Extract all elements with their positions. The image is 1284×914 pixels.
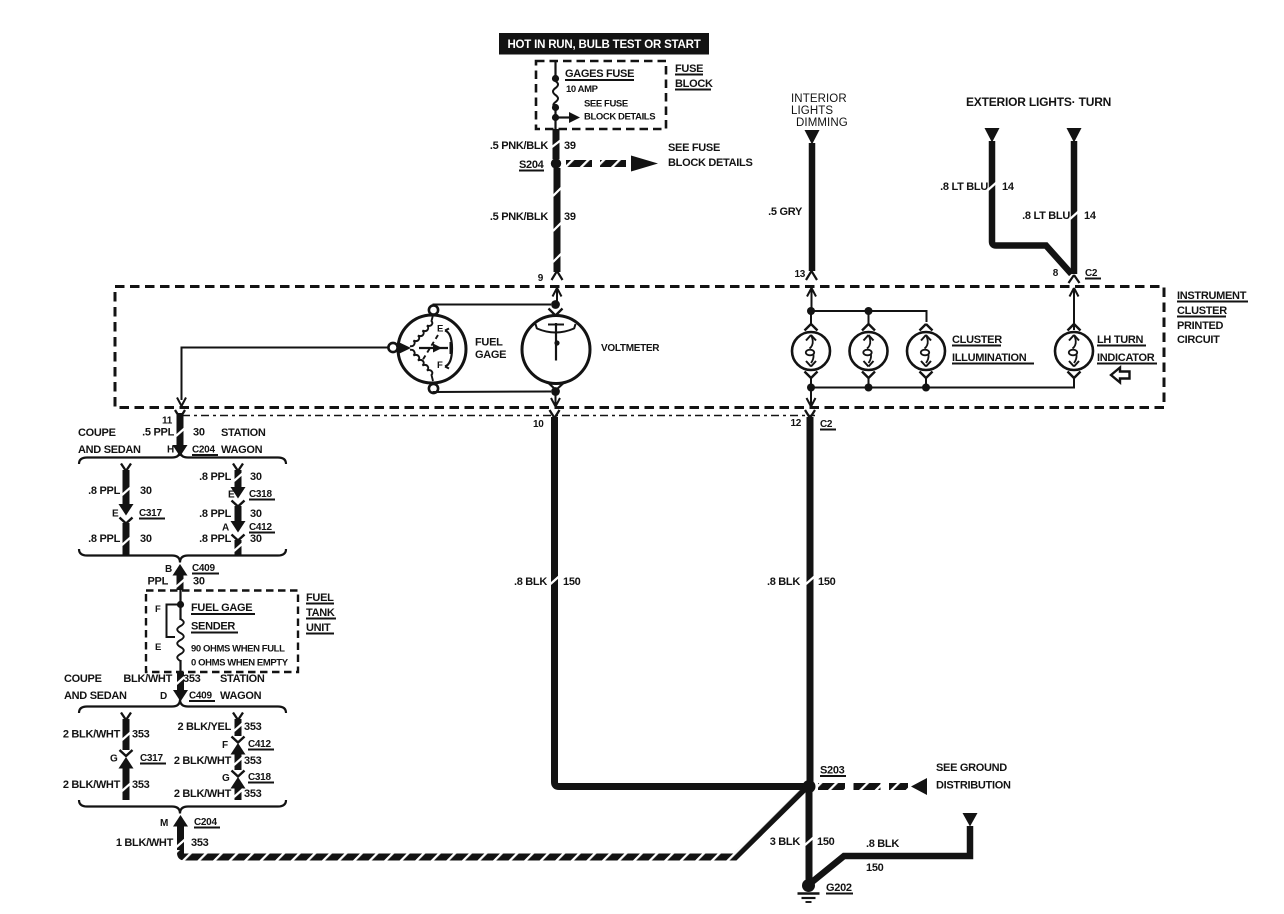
svg-text:12: 12 (790, 418, 801, 429)
wire fuel gage left to pin 11 (182, 348, 389, 401)
connector C204/C2 dash-dot line (182, 415, 815, 417)
long ground wire to S203 (181, 787, 807, 857)
connector C409 pin B (165, 563, 219, 576)
wagon branch wire 2 BLK/WHT 353 middle (174, 754, 262, 770)
splice S203 (803, 765, 847, 794)
svg-text:353: 353 (132, 729, 150, 741)
svg-text:FUEL: FUEL (475, 337, 503, 349)
exterior feed triangle left (985, 128, 1000, 143)
svg-text:39: 39 (564, 211, 576, 223)
svg-text:353: 353 (244, 721, 262, 733)
svg-text:E: E (155, 642, 161, 653)
svg-text:D: D (160, 691, 167, 702)
station wagon label (mid) (220, 673, 265, 702)
svg-text:DISTRIBUTION: DISTRIBUTION (936, 780, 1011, 792)
wire A voltmeter .8 BLK 150 (514, 417, 804, 787)
svg-text:.5 PNK/BLK: .5 PNK/BLK (490, 140, 548, 152)
see fuse block details tap arrow (558, 99, 655, 124)
pin 9 entry (538, 271, 563, 304)
gages fuse F1 (552, 61, 634, 129)
svg-text:G202: G202 (826, 882, 852, 894)
svg-text:SEE FUSE: SEE FUSE (584, 99, 628, 110)
svg-text:30: 30 (193, 427, 205, 439)
coupe branch wire .8 PPL 30 upper (88, 464, 152, 505)
splice S204 (519, 158, 561, 171)
svg-text:150: 150 (818, 576, 836, 588)
svg-text:WAGON: WAGON (220, 690, 262, 702)
svg-text:.8 LT BLU: .8 LT BLU (940, 181, 988, 193)
svg-text:HOT IN RUN, BULB TEST OR START: HOT IN RUN, BULB TEST OR START (507, 39, 700, 51)
dashed arrow see fuse block details (566, 142, 753, 172)
wagon branch wire 2 BLK/WHT 353 bottom (174, 788, 262, 800)
svg-text:.8 PPL: .8 PPL (199, 471, 231, 483)
svg-text:ILLUMINATION: ILLUMINATION (952, 352, 1027, 364)
coupe branch wire 2 BLK/WHT 353 upper (63, 713, 150, 751)
svg-text:PPL: PPL (148, 576, 169, 588)
voltmeter U2 (522, 300, 590, 396)
wire B cluster .8 BLK 150 (767, 417, 836, 782)
svg-text:COUPE: COUPE (78, 427, 116, 439)
fuel gage sender R1 (155, 590, 184, 672)
cluster illumination lamp 2 (850, 324, 888, 378)
svg-text:GAGE: GAGE (475, 349, 506, 361)
connector C318 pin G (lower) (222, 771, 274, 789)
svg-text:F: F (222, 740, 228, 751)
interior lights dimming label (791, 93, 848, 129)
svg-text:C317: C317 (140, 753, 163, 764)
svg-text:0 OHMS WHEN EMPTY: 0 OHMS WHEN EMPTY (191, 658, 289, 669)
wire 3 BLK 150 S203 to G202 (770, 792, 835, 881)
svg-text:.5 PNK/BLK: .5 PNK/BLK (490, 211, 548, 223)
svg-text:353: 353 (132, 779, 150, 791)
svg-text:COUPE: COUPE (64, 673, 102, 685)
svg-text:INSTRUMENT: INSTRUMENT (1177, 290, 1247, 302)
brace bottom of upper group (79, 549, 286, 563)
fuel tank unit label (306, 592, 336, 634)
svg-text:BLOCK: BLOCK (675, 78, 713, 90)
cluster illumination lamp 1 (792, 324, 830, 378)
wire .8 BLK 150 G202 to body (812, 826, 970, 882)
wire fuse to S204 .5 PNK/BLK 39 (490, 129, 576, 159)
svg-text:.5 PPL: .5 PPL (142, 427, 174, 439)
wire .8 LT BLU 14 left (940, 141, 1071, 274)
connector C317 pin G (lower) (110, 750, 166, 769)
svg-text:353: 353 (191, 837, 209, 849)
svg-text:C318: C318 (248, 772, 271, 783)
cluster illumination lamp 3 (907, 324, 945, 378)
wire BLK/WHT 353 below tank (123, 672, 200, 690)
svg-text:SENDER: SENDER (191, 621, 235, 633)
cluster lamp top bus (807, 307, 927, 324)
svg-text:WAGON: WAGON (221, 444, 263, 456)
wagon branch wire .8 PPL 30 top (199, 464, 262, 488)
cluster lamp bottom bus (807, 378, 1074, 392)
ground G202 (798, 879, 854, 902)
svg-text:UNIT: UNIT (306, 622, 331, 634)
svg-text:150: 150 (866, 862, 884, 874)
svg-text:2 BLK/WHT: 2 BLK/WHT (63, 729, 121, 741)
svg-text:C317: C317 (139, 508, 162, 519)
dashed arrow see ground distribution (818, 762, 1011, 795)
svg-text:BLOCK DETAILS: BLOCK DETAILS (668, 157, 753, 169)
svg-text:90 OHMS WHEN FULL: 90 OHMS WHEN FULL (191, 644, 285, 655)
pin 10 exit (533, 395, 560, 430)
coupe branch wire .8 PPL 30 lower (88, 523, 152, 556)
svg-text:2 BLK/WHT: 2 BLK/WHT (174, 755, 232, 767)
svg-text:10 AMP: 10 AMP (566, 84, 599, 95)
svg-text:INDICATOR: INDICATOR (1097, 352, 1155, 364)
svg-text:30: 30 (250, 533, 262, 545)
svg-text:FUEL: FUEL (306, 592, 334, 604)
svg-text:.8 LT BLU: .8 LT BLU (1022, 210, 1070, 222)
wire .8 LT BLU 14 right (1022, 141, 1097, 274)
wire fuel gage top to voltmeter junction (434, 305, 552, 306)
svg-text:11: 11 (162, 416, 173, 427)
svg-text:.8 PPL: .8 PPL (199, 508, 231, 520)
connector C318 pin E (228, 487, 275, 507)
svg-text:M: M (160, 818, 168, 829)
svg-text:1 BLK/WHT: 1 BLK/WHT (116, 837, 174, 849)
svg-text:GAGES FUSE: GAGES FUSE (565, 68, 634, 80)
instrument cluster printed circuit label (1177, 290, 1248, 346)
svg-text:C2: C2 (820, 419, 833, 430)
fuel gage sender label (191, 602, 289, 669)
svg-text:F: F (437, 360, 443, 371)
svg-text:C409: C409 (192, 563, 215, 574)
svg-text:14: 14 (1084, 210, 1097, 222)
svg-text:39: 39 (564, 140, 576, 152)
svg-text:150: 150 (817, 836, 835, 848)
hot in run title bar (499, 33, 709, 55)
pin 13 entry (794, 269, 817, 308)
svg-text:30: 30 (250, 508, 262, 520)
wire S204 to pin 9 .5 PNK/BLK 39 (490, 168, 576, 272)
connector C204 pin M (160, 815, 220, 829)
coupe branch wire 2 BLK/WHT 353 lower (63, 768, 150, 800)
instrument cluster dashed box (115, 287, 1164, 408)
svg-text:F: F (155, 604, 161, 615)
svg-text:TANK: TANK (306, 607, 335, 619)
svg-text:G: G (222, 773, 230, 784)
svg-text:VOLTMETER: VOLTMETER (601, 343, 660, 354)
svg-text:CLUSTER: CLUSTER (952, 334, 1002, 346)
fuel tank unit dashed box (146, 591, 298, 673)
svg-text:.8 PPL: .8 PPL (88, 533, 120, 545)
svg-text:C409: C409 (189, 691, 212, 702)
fuel gage U1 (388, 305, 466, 393)
svg-text:INTERIOR: INTERIOR (791, 93, 847, 105)
body ground triangle (963, 813, 978, 827)
exterior feed triangle right (1067, 128, 1082, 143)
wagon branch wire 2 BLK/YEL 353 (177, 713, 261, 737)
svg-text:S204: S204 (519, 159, 545, 171)
svg-text:150: 150 (563, 576, 581, 588)
svg-text:STATION: STATION (220, 673, 265, 685)
wire PPL 30 to fuel tank unit (148, 575, 205, 590)
svg-text:C318: C318 (249, 489, 272, 500)
svg-text:E: E (437, 324, 443, 335)
svg-text:C204: C204 (192, 445, 215, 456)
brace top of lower group (79, 700, 286, 714)
wagon branch wire .8 PPL 30 bottom (199, 533, 262, 556)
svg-text:LH TURN: LH TURN (1097, 334, 1144, 346)
coupe and sedan label (upper) (78, 427, 141, 456)
svg-text:FUEL GAGE: FUEL GAGE (191, 602, 252, 614)
station wagon label (upper) (221, 427, 266, 456)
svg-text:13: 13 (794, 269, 805, 280)
svg-text:30: 30 (140, 485, 152, 497)
svg-text:30: 30 (140, 533, 152, 545)
svg-text:C204: C204 (194, 817, 217, 828)
svg-text:C2: C2 (1085, 268, 1098, 279)
svg-text:30: 30 (250, 471, 262, 483)
svg-text:EXTERIOR LIGHTS· TURN: EXTERIOR LIGHTS· TURN (966, 95, 1111, 109)
cluster illumination label (952, 334, 1034, 364)
svg-text:BLK/WHT: BLK/WHT (123, 673, 172, 685)
svg-text:A: A (222, 523, 229, 534)
pin 8 C2 entry (1053, 268, 1101, 330)
coupe and sedan label (mid) (64, 673, 127, 702)
svg-text:.8 BLK: .8 BLK (514, 576, 547, 588)
brace bottom of lower group (79, 800, 286, 814)
svg-text:.8 PPL: .8 PPL (88, 485, 120, 497)
svg-text:C412: C412 (248, 739, 271, 750)
svg-text:353: 353 (183, 673, 201, 685)
svg-text:CIRCUIT: CIRCUIT (1177, 334, 1220, 346)
fuse block dashed box (536, 61, 666, 129)
connector C412 pin A (222, 521, 275, 541)
fuel gage label (475, 337, 506, 362)
svg-text:SEE FUSE: SEE FUSE (668, 142, 720, 154)
interior dimming feed triangle (805, 130, 820, 145)
svg-text:FUSE: FUSE (675, 63, 703, 75)
wire fuel gage bottom to voltmeter junction (434, 392, 552, 393)
svg-text:DIMMING: DIMMING (796, 117, 848, 129)
svg-text:14: 14 (1002, 181, 1015, 193)
svg-text:10: 10 (533, 419, 544, 430)
connector C204 pin H (167, 445, 218, 457)
pin 12 exit (790, 390, 836, 430)
svg-text:BLOCK DETAILS: BLOCK DETAILS (584, 112, 655, 123)
svg-text:353: 353 (244, 755, 262, 767)
wire 1 BLK/WHT 353 (116, 826, 209, 852)
connector C412 pin F (lower) (222, 737, 274, 755)
svg-text:2 BLK/WHT: 2 BLK/WHT (174, 788, 232, 800)
lh turn indicator label (1097, 334, 1157, 364)
svg-text:353: 353 (244, 788, 262, 800)
svg-text:.8 BLK: .8 BLK (767, 576, 800, 588)
svg-text:AND SEDAN: AND SEDAN (78, 444, 141, 456)
svg-text:3 BLK: 3 BLK (770, 836, 801, 848)
svg-text:G: G (110, 754, 118, 765)
svg-text:B: B (165, 564, 172, 575)
wagon branch wire .8 PPL 30 middle (199, 506, 262, 521)
svg-text:30: 30 (193, 576, 205, 588)
svg-text:2 BLK/YEL: 2 BLK/YEL (177, 721, 231, 733)
svg-text:SEE GROUND: SEE GROUND (936, 762, 1007, 774)
svg-text:.8 PPL: .8 PPL (199, 533, 231, 545)
svg-text:2 BLK/WHT: 2 BLK/WHT (63, 779, 121, 791)
lh turn indicator lamp (1055, 324, 1093, 378)
svg-text:S203: S203 (820, 765, 845, 777)
svg-text:8: 8 (1053, 268, 1059, 279)
wire .5 GRY interior dimming (768, 143, 812, 271)
svg-text:.8 BLK: .8 BLK (866, 838, 899, 850)
svg-text:PRINTED: PRINTED (1177, 320, 1224, 332)
svg-text:LIGHTS: LIGHTS (791, 105, 833, 117)
left column: .5 PPL 30 wire to C204 (142, 413, 205, 446)
left turn outline arrow icon (1111, 368, 1130, 383)
connector C317 pin E (112, 504, 165, 524)
svg-text:CLUSTER: CLUSTER (1177, 305, 1227, 317)
svg-text:STATION: STATION (221, 427, 266, 439)
svg-text:.5 GRY: .5 GRY (768, 206, 803, 218)
svg-text:E: E (112, 509, 119, 520)
svg-text:C412: C412 (249, 522, 272, 533)
svg-text:9: 9 (538, 273, 544, 284)
connector C409 pin D (160, 690, 215, 702)
fuse block label (675, 63, 713, 90)
brace coupe/sedan + station wagon top (79, 451, 286, 465)
pin 11 exit (162, 398, 186, 427)
svg-text:AND SEDAN: AND SEDAN (64, 690, 127, 702)
svg-text:H: H (167, 445, 174, 456)
